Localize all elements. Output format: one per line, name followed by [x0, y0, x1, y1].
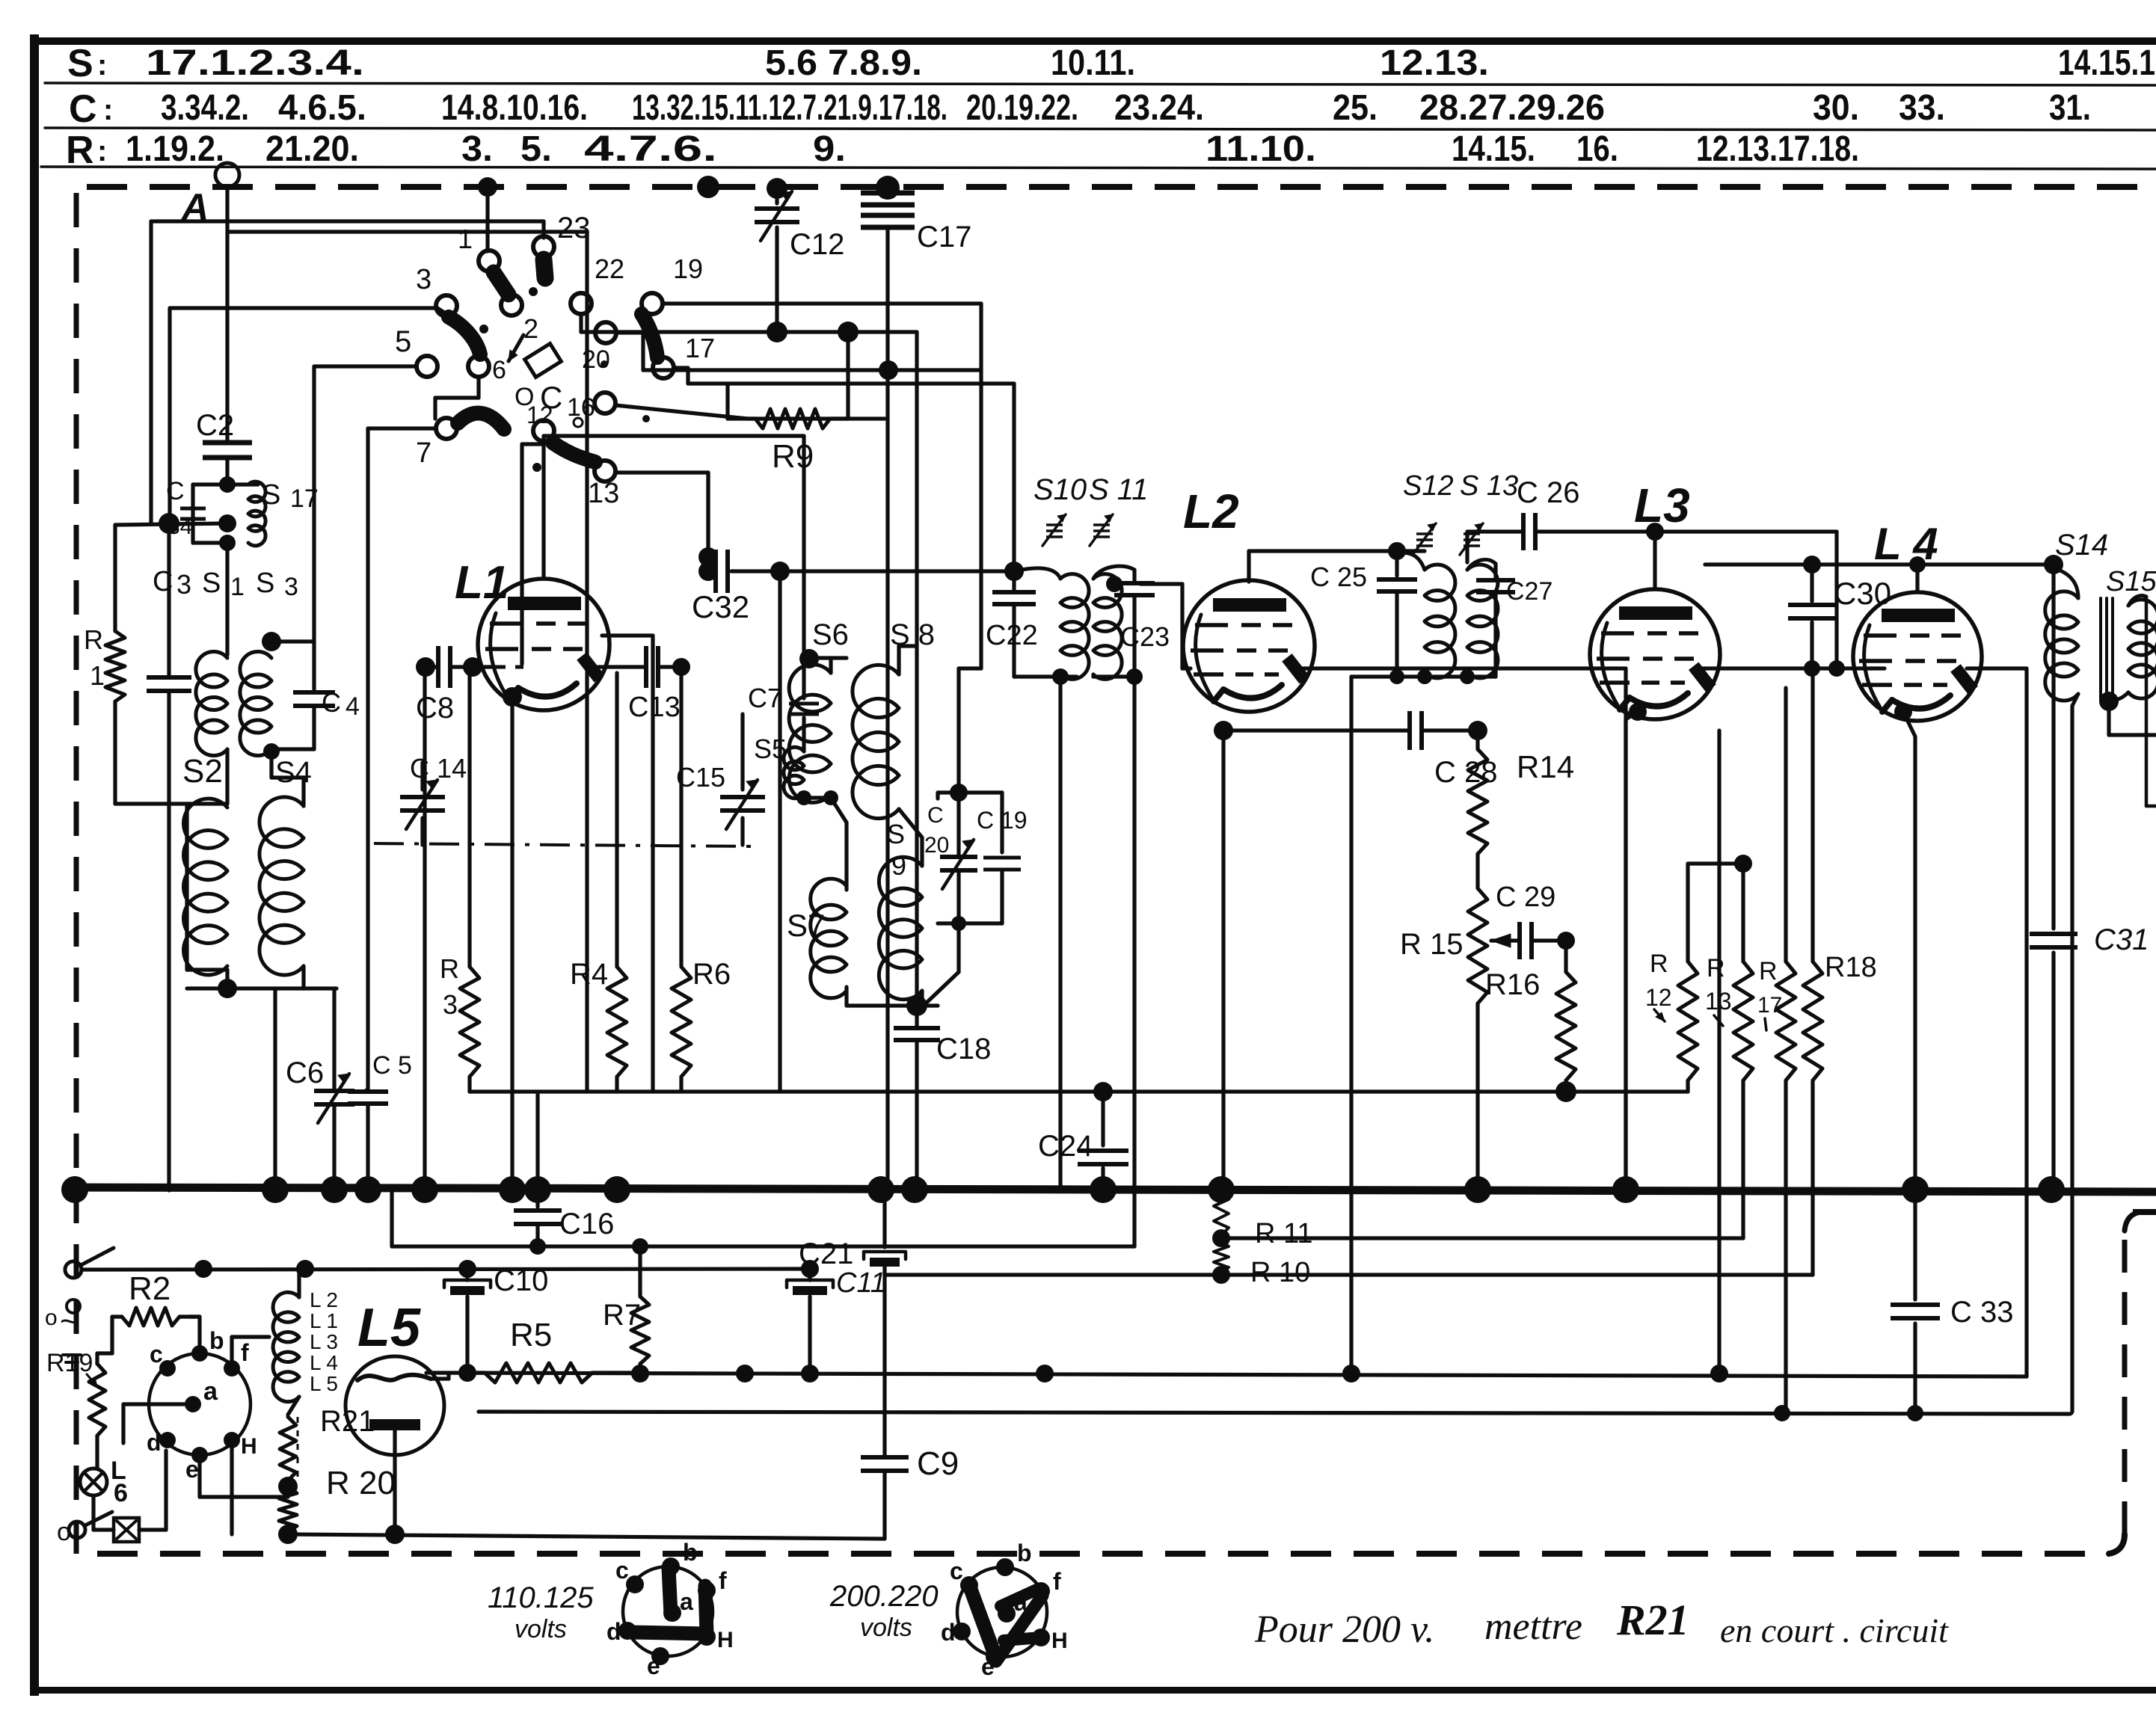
- svg-text:33.: 33.: [1899, 88, 1945, 128]
- svg-text:2: 2: [523, 313, 538, 344]
- svg-text:S7: S7: [787, 908, 825, 943]
- svg-text:S2: S2: [182, 753, 223, 790]
- svg-text:13.32.15.11.12.7.21.9.17.18.: 13.32.15.11.12.7.21.9.17.18.: [632, 88, 948, 128]
- svg-text:R18: R18: [1825, 952, 1877, 983]
- svg-text:4.7.6.: 4.7.6.: [584, 129, 717, 169]
- svg-text:C 5: C 5: [372, 1051, 412, 1080]
- svg-text:R5: R5: [510, 1317, 552, 1353]
- svg-text:L1: L1: [455, 557, 509, 609]
- svg-text:f: f: [1053, 1568, 1061, 1595]
- svg-text:c: c: [950, 1557, 963, 1584]
- svg-text:1: 1: [458, 224, 473, 254]
- svg-text:C 25: C 25: [1310, 562, 1367, 592]
- svg-text:L3: L3: [1634, 479, 1690, 532]
- svg-text:S10: S10: [1034, 473, 1087, 506]
- svg-text:c: c: [150, 1341, 163, 1368]
- svg-text:C2: C2: [196, 409, 234, 442]
- svg-text:12.13.17.18.: 12.13.17.18.: [1696, 129, 1859, 169]
- svg-text:31.: 31.: [2049, 88, 2091, 128]
- svg-text:13: 13: [588, 478, 619, 509]
- svg-text:S: S: [262, 479, 280, 511]
- svg-text:20: 20: [582, 345, 610, 374]
- svg-text:C12: C12: [790, 228, 844, 261]
- svg-text:C: C: [540, 380, 562, 415]
- svg-text:22: 22: [595, 253, 624, 284]
- svg-text:S: S: [887, 819, 905, 849]
- svg-text:C11: C11: [836, 1267, 886, 1299]
- svg-text:L2: L2: [1183, 485, 1239, 538]
- svg-text::: :: [103, 93, 113, 126]
- svg-text:e: e: [647, 1652, 660, 1679]
- svg-text:d: d: [606, 1618, 621, 1645]
- svg-text:b: b: [1017, 1540, 1032, 1566]
- svg-text:S: S: [256, 568, 274, 599]
- svg-text:e: e: [185, 1456, 199, 1483]
- svg-text:C 19: C 19: [977, 807, 1028, 834]
- svg-text:C: C: [322, 687, 341, 718]
- svg-text:C24: C24: [1038, 1130, 1093, 1163]
- svg-text:R 15: R 15: [1400, 928, 1464, 961]
- svg-text:C8: C8: [416, 692, 454, 725]
- svg-text:Pour 200 v.: Pour 200 v.: [1254, 1608, 1434, 1651]
- svg-text:20.19.22.: 20.19.22.: [966, 88, 1078, 128]
- svg-text:f: f: [719, 1567, 727, 1594]
- svg-text:S15: S15: [2106, 566, 2156, 597]
- svg-text:volts: volts: [860, 1614, 912, 1642]
- svg-text:28.27.29.26: 28.27.29.26: [1419, 88, 1605, 128]
- svg-text:12: 12: [1645, 984, 1672, 1011]
- svg-text:R9: R9: [772, 438, 814, 475]
- svg-text:23.24.: 23.24.: [1114, 88, 1204, 128]
- svg-text:12.13.: 12.13.: [1380, 43, 1489, 83]
- svg-text:6: 6: [492, 356, 506, 384]
- svg-text:10.11.: 10.11.: [1051, 43, 1135, 83]
- svg-text:4.6.5.: 4.6.5.: [278, 88, 366, 128]
- svg-text:S12: S12: [1403, 470, 1454, 502]
- svg-text:L 4: L 4: [310, 1351, 338, 1374]
- svg-text:L 4: L 4: [1874, 519, 1938, 569]
- svg-text:C 33: C 33: [1950, 1296, 2014, 1329]
- svg-text:S: S: [202, 568, 221, 599]
- svg-text:S4: S4: [275, 756, 312, 789]
- svg-text:1: 1: [90, 660, 105, 691]
- svg-text:3.34.2.: 3.34.2.: [161, 88, 249, 128]
- svg-text:d: d: [941, 1619, 956, 1646]
- svg-text:mettre: mettre: [1484, 1605, 1582, 1648]
- svg-text:b: b: [683, 1539, 698, 1566]
- svg-text:9: 9: [891, 850, 906, 881]
- svg-text:6: 6: [114, 1479, 128, 1507]
- svg-text:S: S: [67, 42, 93, 85]
- svg-text:L 2: L 2: [310, 1288, 338, 1311]
- svg-text:R4: R4: [570, 958, 608, 991]
- svg-text::: :: [97, 135, 107, 167]
- svg-text:H: H: [1051, 1629, 1068, 1653]
- svg-text::: :: [97, 49, 107, 82]
- svg-text:R19: R19: [46, 1349, 93, 1377]
- svg-text:C: C: [153, 566, 173, 597]
- svg-text:en court . circuit: en court . circuit: [1720, 1611, 1949, 1649]
- svg-text:3: 3: [443, 989, 458, 1020]
- svg-text:L5: L5: [357, 1298, 421, 1358]
- svg-text:b: b: [209, 1327, 224, 1354]
- svg-text:5.: 5.: [520, 129, 552, 169]
- svg-text:17: 17: [1757, 993, 1782, 1018]
- svg-text:L 3: L 3: [310, 1330, 338, 1353]
- svg-text:20: 20: [924, 833, 949, 858]
- svg-text:S 13: S 13: [1460, 470, 1518, 502]
- svg-text:R: R: [84, 624, 103, 655]
- svg-text:14.15.: 14.15.: [1452, 129, 1535, 169]
- svg-text:f: f: [241, 1339, 249, 1366]
- svg-text:R7: R7: [603, 1299, 641, 1332]
- svg-text:21.20.: 21.20.: [265, 129, 359, 169]
- svg-text:C6: C6: [286, 1057, 324, 1089]
- svg-text:C23: C23: [1120, 621, 1170, 652]
- svg-text:1: 1: [230, 573, 245, 601]
- svg-text:R: R: [1759, 957, 1778, 985]
- svg-text:17.1.2.3.4.: 17.1.2.3.4.: [146, 43, 364, 83]
- svg-text:R16: R16: [1485, 968, 1540, 1001]
- svg-text:C22: C22: [986, 620, 1038, 651]
- svg-text:110.125: 110.125: [488, 1581, 594, 1614]
- svg-text:volts: volts: [515, 1615, 567, 1643]
- svg-text:R: R: [1707, 954, 1725, 982]
- svg-text:1.19.2.: 1.19.2.: [126, 129, 224, 169]
- svg-text:23: 23: [557, 212, 591, 245]
- svg-text:25.: 25.: [1333, 88, 1378, 128]
- svg-text:C: C: [69, 87, 97, 131]
- svg-text:C17: C17: [917, 221, 971, 253]
- svg-text:C: C: [927, 803, 944, 828]
- svg-text:O: O: [515, 383, 534, 411]
- svg-text:11.10.: 11.10.: [1206, 129, 1316, 169]
- svg-text:o: o: [57, 1518, 71, 1546]
- svg-text:R: R: [66, 129, 94, 172]
- svg-text:L 1: L 1: [310, 1309, 338, 1332]
- svg-text:C10: C10: [494, 1264, 548, 1297]
- svg-text:R2: R2: [129, 1270, 171, 1307]
- svg-text:C9: C9: [917, 1445, 959, 1482]
- svg-text:19: 19: [673, 253, 703, 284]
- svg-text:~: ~: [60, 1303, 79, 1340]
- svg-text:H: H: [717, 1628, 734, 1652]
- svg-text:9.: 9.: [813, 129, 846, 169]
- svg-text:R: R: [440, 953, 459, 984]
- svg-text:3.: 3.: [461, 129, 493, 169]
- svg-text:R6: R6: [692, 958, 731, 991]
- svg-text:3: 3: [284, 573, 298, 601]
- svg-text:S5: S5: [754, 734, 787, 764]
- svg-text:L 5: L 5: [310, 1372, 338, 1395]
- svg-text:C7: C7: [748, 683, 782, 713]
- svg-text:5.6 7.8.9.: 5.6 7.8.9.: [765, 43, 922, 83]
- svg-text:14.15.1: 14.15.1: [2058, 43, 2155, 83]
- svg-text:7: 7: [416, 437, 431, 469]
- svg-text:R: R: [1650, 950, 1668, 978]
- svg-text:a: a: [203, 1377, 218, 1406]
- svg-text:S6: S6: [812, 618, 849, 651]
- svg-text:200.220: 200.220: [829, 1580, 939, 1613]
- svg-text:C16: C16: [559, 1208, 614, 1240]
- svg-text:d: d: [147, 1429, 162, 1456]
- svg-text:R21: R21: [1616, 1596, 1689, 1644]
- svg-text:R 10: R 10: [1250, 1257, 1310, 1288]
- svg-text:C15: C15: [676, 762, 725, 793]
- svg-text:16: 16: [567, 393, 595, 422]
- svg-text:o: o: [45, 1305, 58, 1330]
- svg-text:C31: C31: [2094, 923, 2149, 956]
- svg-text:4: 4: [345, 692, 360, 721]
- svg-text:30.: 30.: [1813, 88, 1859, 128]
- svg-text:16.: 16.: [1576, 129, 1618, 169]
- svg-text:C 29: C 29: [1496, 882, 1555, 913]
- svg-text:14.8.10.16.: 14.8.10.16.: [441, 88, 588, 128]
- svg-text:S 11: S 11: [1089, 473, 1148, 506]
- svg-text:S14: S14: [2055, 529, 2108, 562]
- svg-text:C 14: C 14: [410, 753, 467, 784]
- svg-text:C30: C30: [1834, 576, 1891, 611]
- svg-text:H: H: [241, 1434, 257, 1459]
- svg-text:C18: C18: [936, 1033, 991, 1065]
- svg-text:c: c: [615, 1557, 629, 1584]
- svg-text:3: 3: [416, 264, 431, 295]
- svg-text:R 11: R 11: [1255, 1218, 1312, 1249]
- svg-text:R 20: R 20: [326, 1465, 396, 1501]
- svg-text:a: a: [680, 1588, 693, 1615]
- svg-text:R14: R14: [1517, 749, 1574, 784]
- svg-text:17: 17: [685, 333, 715, 363]
- svg-text:C 26: C 26: [1517, 476, 1580, 509]
- svg-text:C32: C32: [692, 589, 749, 624]
- svg-text:5: 5: [395, 325, 411, 358]
- svg-text:C27: C27: [1506, 577, 1552, 606]
- svg-text:3: 3: [176, 569, 191, 600]
